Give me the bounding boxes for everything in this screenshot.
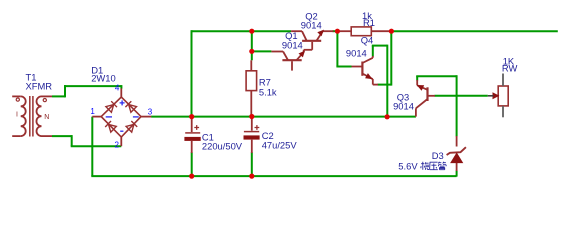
- svg-text:9014: 9014: [282, 39, 303, 50]
- svg-text:1: 1: [90, 107, 95, 116]
- svg-text:220u/50V: 220u/50V: [202, 140, 243, 151]
- svg-text:4: 4: [115, 83, 120, 92]
- svg-text:9014: 9014: [346, 48, 367, 59]
- svg-text:9014: 9014: [301, 20, 322, 31]
- svg-text:9014: 9014: [393, 101, 414, 112]
- svg-text:2W10: 2W10: [91, 73, 116, 84]
- svg-text:5.6V: 5.6V: [398, 160, 418, 171]
- svg-text:3: 3: [148, 107, 153, 116]
- svg-text:RW: RW: [502, 63, 518, 74]
- svg-text:N: N: [44, 114, 49, 121]
- svg-text:Q4: Q4: [361, 34, 374, 45]
- svg-text:2: 2: [115, 140, 120, 149]
- svg-text:5.1k: 5.1k: [259, 87, 277, 98]
- svg-text:R1: R1: [363, 17, 375, 28]
- svg-text:47u/25V: 47u/25V: [262, 140, 298, 151]
- svg-text:I: I: [16, 112, 18, 119]
- svg-text:D3: D3: [432, 150, 444, 161]
- svg-text:XFMR: XFMR: [26, 81, 53, 92]
